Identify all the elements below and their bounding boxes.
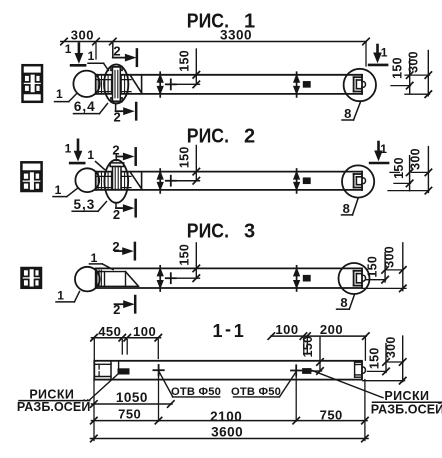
fig3 section mark 2 top [115,250,124,252]
section right dims 150/300 [385,344,387,373]
fig1 console inner bottom line [96,91,131,93]
fig1 height arrows left [159,72,161,97]
section beam right embedded channel [355,361,362,363]
fig2 right dim line 300 [427,147,429,193]
fig3 axis mark rectangle [303,275,310,281]
svg-text:ОТВ Ф50: ОТВ Ф50 [171,386,221,398]
svg-text:750: 750 [320,408,343,423]
svg-text:2: 2 [113,302,121,317]
svg-text:100: 100 [275,322,298,337]
fig2 detail circle 8 [342,165,374,197]
fig1 beam right end line [361,75,363,94]
fig3 console haunch slope [126,272,139,287]
svg-text:150: 150 [366,256,380,278]
svg-text:1: 1 [91,251,98,265]
fig2 section mark 2 bottom [115,203,117,208]
fig3 console end hatch block [96,271,126,273]
fig1 beam left end line [95,75,97,94]
bottom dim extension lines [93,380,95,441]
fig1 console hatch [98,76,128,94]
svg-text:6,4: 6,4 [74,99,96,114]
svg-text:150: 150 [301,336,315,358]
fig1 embedded part 8 [354,76,362,78]
dim 150 right hole [319,337,321,371]
fig2 axis mark rectangle [303,178,310,184]
svg-text:РАЗБ.ОСЕЙ: РАЗБ.ОСЕЙ [17,399,91,414]
svg-text:2: 2 [113,44,121,59]
svg-text:1: 1 [244,10,255,32]
right hole center cross [291,370,301,372]
fig1 beam bottom line [96,93,362,95]
fig2 vertical strap [110,163,124,167]
fig1 section mark 1 left [78,44,81,56]
fig3 right dim extension lines [386,269,403,271]
svg-text:8: 8 [344,106,352,121]
fig1 end view block [23,65,43,102]
svg-text:2: 2 [113,207,121,222]
svg-text:1: 1 [65,42,72,56]
svg-text:2: 2 [244,126,255,148]
fig2 height arrows left [159,169,161,193]
svg-text:2: 2 [112,142,120,157]
svg-text:8: 8 [343,201,351,216]
top dim line left 450/100 [92,337,161,339]
svg-text:5,3: 5,3 [74,197,96,212]
fig1 vertical strap [111,67,122,71]
svg-text:1: 1 [56,87,63,101]
fig3 beam bottom line [96,287,362,289]
svg-text:300: 300 [71,27,94,42]
fig2 section mark 1 right [377,142,380,153]
svg-text:1: 1 [381,46,388,60]
fig1 beam top line [96,74,362,76]
fig2 section mark 1 left [77,140,80,153]
fig1 center cross [166,83,176,85]
left hole center cross [153,369,163,371]
svg-text:150: 150 [177,50,191,72]
svg-text:3600: 3600 [211,425,243,440]
svg-text:1: 1 [87,148,94,162]
fig1 dim 150 mid [195,49,197,84]
fig2 section mark 2 top [115,155,117,161]
svg-text:ОТВ Ф50: ОТВ Ф50 [231,386,281,398]
fig3 beam left end line [95,268,97,288]
fig2 beam left end line [95,172,97,190]
fig2 console hatch [98,172,128,189]
svg-text:450: 450 [98,324,121,339]
svg-text:РИС.: РИС. [187,10,229,32]
svg-text:2100: 2100 [210,409,242,424]
svg-text:300: 300 [383,246,397,268]
fig2 beam bottom line [96,189,362,191]
svg-text:8: 8 [340,295,348,310]
dimension line 300/3300 fig1 [61,41,366,43]
fig3 height arrows left [159,266,161,291]
svg-text:2: 2 [112,239,120,254]
fig2 console inner bottom line [96,187,131,189]
fig1 console haunch triangle [131,76,142,93]
left dim extension lines [93,339,95,361]
fig1 height arrows right [296,72,298,97]
section beam outline [94,361,362,380]
fig2 embedded part 8 [354,173,362,175]
svg-text:200: 200 [320,322,343,337]
svg-text:150: 150 [392,157,406,179]
fig3 console panel [104,272,106,287]
svg-text:150: 150 [177,244,191,266]
fig3 embedded part 8 [354,270,362,272]
fig2 detail ellipse [104,160,128,203]
svg-text:1: 1 [212,321,222,341]
extension line left fig1 [95,42,97,59]
left axis mark [118,361,120,369]
svg-text:100: 100 [133,324,156,339]
fig2 beam right end line [361,172,363,190]
svg-text:1: 1 [65,142,72,156]
fig2 console inner top line [96,175,131,177]
svg-text:1: 1 [234,321,244,341]
svg-text:150: 150 [177,146,191,168]
fig3 detail circle 1 [75,267,100,292]
svg-text:150: 150 [390,57,404,79]
bottom dim line 1050 [92,403,173,405]
fig3 right dim line 300 [402,243,404,291]
svg-text:РИС.: РИС. [187,126,229,148]
fig3 detail circle 8 [339,263,370,294]
svg-text:1050: 1050 [116,390,148,405]
svg-text:750: 750 [118,406,141,421]
svg-text:150: 150 [368,347,382,369]
fig2 right dim extension lines [390,171,399,173]
svg-text:300: 300 [408,148,422,170]
fig2 beam top line [96,171,362,173]
fig2 dim 150 mid [195,145,197,180]
fig1 axis mark rectangle [303,82,310,88]
section beam left embedded channel [94,363,111,365]
fig3 center cross [166,277,176,279]
svg-text:РИС.: РИС. [187,220,229,242]
fig1 section mark 2 top [112,42,114,58]
fig3 end view block [22,268,42,288]
svg-text:РАЗБ.ОСЕЙ: РАЗБ.ОСЕЙ [371,402,442,417]
fig3 beam top line [96,267,362,269]
fig1 section mark 2 bottom [115,104,117,111]
fig3 section mark 2 bottom [115,303,126,305]
fig1 console inner top line [96,79,131,81]
fig1 right dim line 150 [409,59,411,93]
fig1 right dim extension lines [405,74,430,76]
svg-text:-: - [225,319,231,339]
svg-text:1: 1 [88,49,95,63]
svg-text:1: 1 [55,183,62,197]
right axis mark [303,369,311,374]
fig1 detail ellipse [104,64,128,103]
fig2 console haunch triangle [131,173,142,189]
svg-text:300: 300 [384,336,398,358]
fig1 right dim line 300 [427,51,429,96]
svg-text:2: 2 [114,109,122,124]
fig2 right dim line 150 [409,156,411,191]
svg-text:300: 300 [407,51,421,73]
fig3 dim 150 mid [195,243,197,278]
top dim line right 100/200 [271,335,367,337]
svg-text:3: 3 [244,220,255,242]
fig3 beam right end line [361,268,363,288]
fig1 detail circle 8 [344,69,376,101]
svg-text:1: 1 [57,289,64,303]
fig2 height arrows right [296,169,298,193]
fig3 height arrows right [296,266,298,291]
fig2 center cross [166,180,176,182]
bottom dim line 3600 [91,438,369,440]
bottom dim line 750 2100 750 [92,420,368,422]
fig2 detail circle 1 [75,168,99,192]
fig2 end view block [21,162,41,191]
fig1 detail circle 1 [73,71,99,97]
extension line right fig1 [365,42,367,66]
right dim extension lines [303,338,305,355]
fig3 right dim line 150 [384,253,386,283]
svg-text:РИСКИ: РИСКИ [384,389,429,403]
fig1 section mark 1 right [376,45,379,55]
svg-text:1: 1 [380,142,387,156]
